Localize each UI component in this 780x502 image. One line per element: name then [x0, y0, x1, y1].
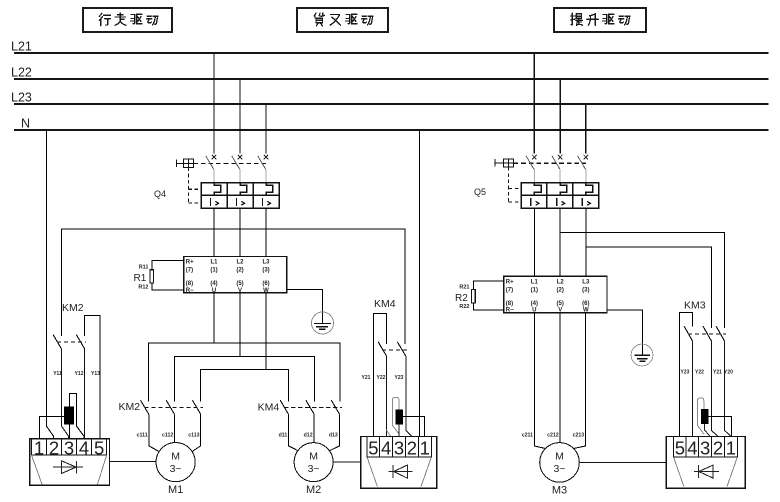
- svg-text:(4): (4): [210, 281, 217, 287]
- terminal block / rectifier plug XB3 (pins 5-1): [666, 437, 745, 489]
- Q5 pole 2 contact: [552, 155, 563, 183]
- Q4 pole 3 contact: [258, 155, 269, 183]
- svg-text:d11: d11: [279, 433, 288, 439]
- svg-text:3: 3: [700, 437, 710, 458]
- diode (pointing left): [389, 465, 413, 478]
- brake suppressor component (middle, black): [386, 397, 424, 436]
- wire: tap from L2 column to KM3 contact 3 feed: [560, 233, 724, 328]
- header box: 行走驱动 (travel drive): [83, 8, 172, 32]
- wire Y12 to pin 4: [84, 349, 86, 439]
- wire: R1 U phase to distribution line A: [213, 293, 215, 343]
- Q5 thermal overload elements: [534, 183, 592, 196]
- Q5 magnetic trip I> symbols: [531, 198, 591, 206]
- soft-start controller block R1 terminals: [184, 257, 287, 295]
- jumper bridge Y23 feed: [679, 312, 692, 436]
- svg-text:d12: d12: [304, 433, 313, 439]
- svg-text:(8): (8): [186, 281, 193, 287]
- wire: L23 drop to Q5 pole 3: [585, 104, 587, 154]
- svg-text:1: 1: [34, 437, 44, 458]
- svg-text:3~: 3~: [170, 463, 182, 475]
- trapezoid body: [32, 455, 107, 485]
- braking resistor R2: [455, 281, 504, 310]
- svg-text:(5): (5): [236, 281, 243, 287]
- circuit breaker Q5 (motor protection, 3-pole): [474, 155, 725, 328]
- svg-text:R2: R2: [455, 293, 468, 304]
- svg-text:KM4: KM4: [258, 402, 280, 414]
- svg-text:5: 5: [94, 437, 104, 458]
- KM2 aux contact 2: [76, 335, 84, 349]
- Q4 trip linkage (dashed): [193, 162, 266, 164]
- Q5 body box: [521, 183, 599, 209]
- svg-text:M: M: [171, 450, 180, 462]
- wire: R1 V phase to distribution line B: [239, 293, 241, 357]
- svg-text:c211: c211: [522, 433, 533, 439]
- svg-text:R+: R+: [506, 279, 514, 285]
- diode (pointing left): [694, 465, 719, 478]
- svg-text:Y21: Y21: [362, 375, 371, 381]
- svg-text:R1: R1: [134, 273, 147, 284]
- svg-text:Y20: Y20: [724, 370, 733, 376]
- wire: L22 drop to Q4 pole 2: [239, 79, 241, 154]
- wire Y22 to pin 4: [385, 356, 387, 436]
- brake suppressor component (left, black): [39, 393, 84, 438]
- svg-text:Y11: Y11: [53, 371, 62, 377]
- svg-text:N: N: [21, 116, 30, 130]
- svg-text:L3: L3: [582, 279, 590, 285]
- svg-text:M: M: [555, 451, 564, 463]
- svg-text:d13: d13: [329, 433, 338, 439]
- svg-text:KM4: KM4: [374, 298, 396, 310]
- svg-text:c212: c212: [547, 433, 559, 439]
- header box: 提升驱动 (lift drive): [554, 8, 646, 32]
- svg-text:(1): (1): [531, 287, 538, 293]
- wire: motor M3 to terminal block XB3: [579, 461, 666, 463]
- wire: R1 earth lead: [287, 289, 323, 323]
- svg-text:(6): (6): [582, 301, 589, 307]
- svg-text:KM3: KM3: [684, 300, 706, 312]
- Q4 pole 1 contact: [206, 155, 217, 183]
- svg-text:(8): (8): [506, 301, 513, 307]
- contactor KM4 main contacts (motor M2): [258, 400, 342, 414]
- protective earth symbol (left): [312, 312, 334, 334]
- svg-text:2: 2: [713, 437, 723, 458]
- soft-start controller block R2 terminals: [504, 276, 607, 314]
- svg-text:L22: L22: [11, 65, 32, 79]
- wire Y23 to pin 2: [406, 356, 412, 436]
- svg-text:(3): (3): [262, 268, 269, 274]
- svg-text:M3: M3: [552, 484, 567, 496]
- svg-text:3: 3: [64, 437, 74, 458]
- wire Y21 to pin 2: [711, 341, 718, 437]
- svg-text:(7): (7): [186, 268, 193, 274]
- Q5 pole 3 contact: [578, 155, 589, 183]
- svg-text:L2: L2: [236, 260, 244, 266]
- svg-text:M: M: [309, 450, 318, 462]
- svg-text:KM2: KM2: [62, 302, 84, 314]
- linkage dashed: [382, 349, 407, 351]
- svg-text:(6): (6): [262, 281, 269, 287]
- svg-text:R12: R12: [138, 284, 148, 290]
- Q5 test button: [495, 159, 514, 167]
- svg-text:Q4: Q4: [154, 189, 166, 199]
- svg-text:Q5: Q5: [474, 187, 486, 197]
- KM3 contact 2: [703, 326, 712, 341]
- svg-text:Y22: Y22: [695, 370, 704, 376]
- Y labels: [53, 371, 100, 377]
- svg-text:L1: L1: [210, 260, 218, 266]
- wire component bottom to pin 3: [69, 424, 71, 438]
- brake suppressor component (right, black): [697, 398, 731, 437]
- bus line L22: [11, 65, 769, 79]
- svg-text:4: 4: [79, 437, 89, 458]
- svg-text:2: 2: [49, 437, 59, 458]
- contactor KM4 auxiliary contacts (brake circuit, right): [362, 298, 412, 437]
- Y labels: [681, 370, 734, 376]
- svg-text:R21: R21: [459, 285, 469, 291]
- svg-text:3~: 3~: [308, 463, 320, 475]
- header box: 货叉驱动 (fork drive): [297, 8, 388, 32]
- node line B (V phase: KM2-2 / KM4-2): [175, 356, 315, 401]
- bus line L21: [11, 40, 769, 54]
- wire: tap from L3 column to KM3 contact 2 feed: [586, 247, 712, 328]
- wire: R2 earth lead: [607, 310, 642, 355]
- svg-text:L3: L3: [262, 260, 270, 266]
- wire Y20 to pin 1: [725, 341, 731, 437]
- motor M1: [156, 443, 195, 497]
- wire: motor M2 to terminal block XB2: [333, 461, 361, 463]
- svg-text:3~: 3~: [554, 463, 566, 475]
- KM4 aux contact 2: [397, 342, 406, 356]
- wires: KM2 to motor M1 terminals: [149, 414, 201, 451]
- svg-text:Y23: Y23: [395, 375, 404, 381]
- wire component to pin 1: [39, 417, 64, 439]
- wire: L21 drop to Q5 pole 1: [533, 53, 535, 154]
- svg-text:c213: c213: [573, 433, 585, 439]
- Q4 magnetic trip I> symbols: [210, 198, 270, 206]
- motor M2: [294, 443, 333, 496]
- Q4 body box: [201, 183, 279, 209]
- wire R12 to block: [152, 283, 184, 290]
- wire: R1 W phase to distribution line C: [265, 293, 267, 370]
- contactor KM2 auxiliary contacts (brake circuit, left): [53, 302, 100, 439]
- node line A (U phase: KM2-1 / KM4-3): [149, 343, 340, 402]
- svg-text:(7): (7): [506, 287, 513, 293]
- svg-text:c112: c112: [162, 433, 173, 439]
- svg-text:(1): (1): [210, 268, 217, 274]
- motor M1 lead labels: [137, 433, 200, 439]
- Q4 pole 2 contact: [232, 155, 243, 183]
- wire: N down left side to terminal block XB1 pin 2: [46, 130, 53, 439]
- svg-text:M1: M1: [168, 484, 183, 496]
- wires: R2 outputs U V W down to motor M3: [534, 313, 585, 449]
- Q4 thermal overload elements: [214, 183, 273, 196]
- node line C (W phase: KM2-3 / KM4-1): [201, 370, 289, 402]
- svg-text:R11: R11: [139, 264, 149, 270]
- wire: N down right side to terminal block XB2 pin 1: [419, 130, 421, 437]
- contactor KM3 auxiliary contacts (brake circuit, far right): [679, 300, 733, 437]
- svg-text:c111: c111: [137, 433, 148, 439]
- svg-text:(3): (3): [582, 287, 589, 293]
- motor M3: [540, 443, 580, 497]
- wire Y22 to pin 4: [692, 341, 694, 437]
- wires: KM4 to motor M2 terminals: [289, 414, 340, 451]
- wire Y11 to pin 3: [61, 349, 68, 439]
- bus line L23: [11, 91, 769, 105]
- svg-text:(2): (2): [557, 287, 564, 293]
- svg-text:Y22: Y22: [377, 375, 386, 381]
- svg-text:(2): (2): [236, 268, 243, 274]
- terminal block / rectifier plug XB2 (pins 5-1): [361, 437, 437, 489]
- svg-text:R−: R−: [506, 308, 514, 314]
- wire R11 to block: [152, 260, 184, 270]
- motor M2 lead labels: [279, 433, 338, 439]
- svg-text:KM2: KM2: [119, 401, 141, 413]
- svg-text:L21: L21: [11, 40, 32, 54]
- jumper bridge Y21 feed: [373, 313, 386, 436]
- wire: link node between KM2 contact and KM4 contact (long horizontal): [61, 229, 405, 344]
- svg-text:L1: L1: [531, 279, 539, 285]
- svg-text:R+: R+: [186, 260, 194, 266]
- svg-text:Y12: Y12: [75, 371, 84, 377]
- circuit breaker Q4 (motor protection, 3-pole): [154, 155, 279, 257]
- svg-text:5: 5: [368, 437, 378, 458]
- svg-text:(5): (5): [557, 301, 564, 307]
- bus line N: [14, 116, 769, 130]
- svg-text:Y13: Y13: [91, 371, 100, 377]
- Q4 test button: [176, 159, 193, 167]
- svg-text:3: 3: [394, 437, 404, 458]
- svg-text:2: 2: [407, 437, 417, 458]
- KM3 contact 1: [684, 326, 693, 341]
- motor lead labels c211 c212 c213: [522, 433, 585, 439]
- jumper bridge to Y13: [85, 315, 100, 438]
- svg-text:Y23: Y23: [681, 370, 690, 376]
- svg-text:c113: c113: [188, 433, 199, 439]
- Q5 pole 1 contact: [526, 155, 537, 183]
- svg-text:1: 1: [726, 437, 736, 458]
- svg-text:L23: L23: [11, 91, 32, 105]
- wire: L22 drop to Q5 pole 2: [559, 79, 561, 154]
- svg-text:(4): (4): [531, 301, 538, 307]
- svg-text:5: 5: [675, 437, 685, 458]
- linkage dashed: [57, 341, 86, 343]
- Y labels: [362, 375, 404, 381]
- KM4 aux contact 1: [378, 342, 387, 356]
- linkage dashed: [688, 333, 726, 335]
- terminal block / rectifier plug XB1 (pins 1-5): [30, 437, 110, 485]
- svg-text:4: 4: [687, 437, 697, 458]
- KM2 aux contact 1: [53, 335, 61, 349]
- svg-text:L2: L2: [557, 279, 565, 285]
- KM3 contact 3: [716, 326, 725, 341]
- contactor KM2 main contacts (motor M1): [119, 400, 204, 414]
- diode (pointing right): [53, 461, 83, 474]
- svg-text:R22: R22: [459, 304, 469, 310]
- svg-text:Y21: Y21: [713, 370, 722, 376]
- svg-text:R−: R−: [186, 288, 194, 294]
- svg-text:M2: M2: [306, 484, 321, 496]
- wire: L21 drop to Q4 pole 1: [213, 53, 215, 154]
- wire: XB1 to motor M1: [110, 461, 157, 463]
- Q5 trip linkage (dashed): [514, 162, 586, 164]
- protective earth symbol (right): [631, 344, 653, 366]
- wire: L23 drop to Q4 pole 3: [265, 104, 267, 154]
- wires: Q5 outputs to R2 L1 L2 L3: [534, 208, 586, 276]
- svg-text:1: 1: [420, 437, 430, 458]
- svg-text:4: 4: [381, 437, 391, 458]
- wires: Q4 outputs to R1 L1 L2 L3: [214, 208, 266, 257]
- braking resistor R1: [134, 260, 184, 290]
